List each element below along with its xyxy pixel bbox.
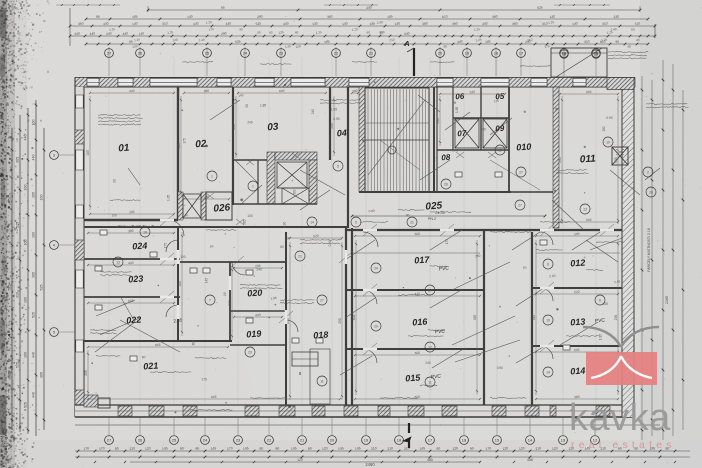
svg-text:365: 365 [481,127,487,131]
svg-text:18: 18 [143,230,147,234]
svg-text:24: 24 [374,266,378,270]
svg-text:440: 440 [255,313,261,318]
svg-text:295: 295 [574,232,580,237]
detail reference circles [113,137,656,387]
svg-text:014: 014 [570,365,586,376]
svg-text:610: 610 [442,14,448,19]
svg-text:140: 140 [342,21,348,26]
svg-text:024: 024 [132,240,148,251]
svg-text:04: 04 [336,128,347,139]
svg-text:380: 380 [203,89,209,94]
svg-text:90: 90 [245,104,249,108]
svg-text:95: 95 [96,15,100,19]
svg-text:170: 170 [99,446,105,451]
svg-text:27: 27 [320,298,324,302]
svg-text:160: 160 [24,185,28,191]
wall 023|022 [84,296,180,298]
svg-text:26: 26 [649,190,653,194]
room label 018 [313,329,329,340]
svg-text:310: 310 [162,21,168,26]
svg-text:real estates: real estates [571,439,676,451]
svg-text:14: 14 [528,438,533,443]
svg-text:2165: 2165 [665,296,669,304]
top grid bubbles [105,49,601,58]
top grid droppers [109,47,596,76]
svg-text:11: 11 [428,380,432,384]
svg-text:440: 440 [457,39,463,44]
watermark gray bird curves [583,327,659,347]
svg-text:295: 295 [330,123,334,129]
svg-text:100: 100 [602,126,606,132]
svg-text:5: 5 [355,220,357,224]
svg-text:175: 175 [544,44,550,49]
window flags [206,149,624,225]
room label 021 [143,360,159,371]
top-right corner pier [607,78,634,90]
svg-text:60: 60 [308,446,312,451]
svg-text:1.85: 1.85 [599,334,603,340]
svg-text:310: 310 [16,292,20,298]
svg-text:295: 295 [338,318,342,324]
svg-text:20: 20 [248,350,252,354]
svg-text:19: 19 [546,318,550,322]
svg-text:380: 380 [473,315,477,321]
wall 024|023 [84,258,180,260]
svg-text:13: 13 [583,207,587,211]
wall 020|019 [230,310,286,312]
svg-text:1: 1 [211,174,213,178]
room 01 bottom wall [84,219,178,221]
svg-text:140: 140 [572,21,578,26]
svg-text:24: 24 [203,438,208,443]
svg-text:175: 175 [201,377,207,381]
shaft X room03 b [282,188,309,204]
svg-text:210: 210 [387,446,393,451]
svg-text:19: 19 [465,51,470,56]
svg-text:90: 90 [470,446,474,451]
svg-text:21: 21 [300,438,305,443]
svg-text:525: 525 [16,362,20,368]
svg-text:27: 27 [518,203,522,207]
room label 013 [570,316,586,327]
svg-text:5: 5 [337,164,339,168]
terrace outline top right [551,48,607,77]
svg-text:22: 22 [267,438,272,443]
svg-text:0.90: 0.90 [606,116,612,120]
svg-text:120: 120 [552,446,558,451]
svg-text:295: 295 [228,300,232,306]
shaft X room 011 [612,147,628,165]
svg-text:20: 20 [330,438,335,443]
svg-text:240: 240 [256,267,262,271]
ink age spots [84,81,601,430]
svg-text:120: 120 [452,446,458,451]
svg-text:440: 440 [129,89,135,94]
svg-text:120: 120 [132,44,138,49]
svg-text:120: 120 [297,458,303,462]
room label 011 [579,153,596,165]
svg-text:170: 170 [227,446,233,451]
wall 018 left vertical [285,232,287,405]
svg-text:140: 140 [394,21,400,26]
svg-text:24: 24 [243,51,248,56]
svg-text:145: 145 [338,446,344,451]
svg-text:440: 440 [532,315,536,321]
svg-text:290: 290 [257,14,263,19]
wall 01|02 vertical [177,87,179,220]
svg-text:27: 27 [428,288,432,292]
room fixtures [95,172,570,404]
svg-text:310: 310 [602,21,608,26]
svg-text:175: 175 [182,138,186,144]
door opening breaks [160,220,614,349]
svg-text:PVC: PVC [594,317,605,324]
svg-text:605: 605 [128,299,134,304]
room label 08 [441,153,451,163]
svg-text:440: 440 [283,21,289,26]
svg-text:21: 21 [369,51,374,56]
svg-text:145: 145 [419,446,425,451]
svg-text:120: 120 [502,446,508,451]
svg-text:210: 210 [527,38,533,43]
room label 010 [516,141,532,152]
svg-text:240: 240 [482,21,488,26]
svg-text:20: 20 [438,51,443,56]
wall 018 right vertical [345,228,347,405]
svg-text:100: 100 [112,214,118,218]
svg-text:360: 360 [512,21,518,26]
svg-text:1: 1 [252,184,254,188]
svg-text:295: 295 [84,370,88,376]
svg-text:26: 26 [138,51,143,56]
svg-text:11: 11 [320,379,324,383]
svg-text:60: 60 [280,245,284,249]
interior dimension chains [84,89,619,400]
svg-text:17: 17 [428,438,433,443]
corridor 025 bottom wall [346,229,622,231]
outer wall right hatched [622,87,634,417]
bottom grid bubbles [105,417,600,444]
svg-text:160: 160 [24,240,28,246]
svg-text:026: 026 [213,202,231,214]
small rooms below 03 walls [233,160,317,204]
svg-text:1.85: 1.85 [260,104,266,108]
svg-text:380: 380 [128,229,134,234]
room label 022 [126,314,142,325]
svg-text:09: 09 [495,124,505,134]
svg-text:210: 210 [371,446,377,451]
svg-text:120: 120 [295,44,301,49]
svg-text:175: 175 [209,27,215,32]
svg-text:95: 95 [221,6,225,10]
svg-text:23: 23 [279,51,284,56]
svg-text:24.35: 24.35 [435,211,445,215]
svg-text:16: 16 [462,438,467,443]
svg-text:07: 07 [457,129,467,139]
svg-text:8: 8 [599,298,601,302]
svg-text:440: 440 [32,352,36,358]
svg-text:605: 605 [414,395,420,400]
svg-text:12: 12 [498,148,502,152]
svg-text:365: 365 [16,157,20,163]
svg-text:60: 60 [436,446,440,451]
svg-text:525: 525 [16,222,20,228]
svg-text:21: 21 [410,220,414,224]
svg-text:380: 380 [352,89,358,94]
svg-text:185: 185 [132,14,138,19]
svg-text:011: 011 [579,153,596,165]
svg-text:17: 17 [519,51,524,56]
room label 02 [195,139,207,151]
svg-text:240: 240 [613,14,619,19]
svg-text:100: 100 [180,255,186,259]
shaft X right [483,119,507,148]
svg-text:525: 525 [255,21,261,26]
leader lines rooms [95,140,622,362]
svg-text:605: 605 [279,89,285,94]
svg-text:170: 170 [485,446,491,451]
svg-text:175: 175 [493,99,499,104]
svg-text:140: 140 [549,14,555,19]
svg-text:60: 60 [259,446,263,451]
svg-text:380: 380 [177,143,181,149]
svg-text:010: 010 [516,141,532,152]
svg-text:06: 06 [455,92,465,102]
wall 012|013 [532,287,622,289]
svg-text:0.90: 0.90 [497,366,503,370]
svg-text:13: 13 [116,260,120,264]
svg-text:145: 145 [204,278,208,284]
room label 04 [336,128,347,139]
svg-text:210: 210 [535,446,541,451]
svg-text:03: 03 [267,122,279,134]
svg-text:440: 440 [436,118,440,124]
svg-text:610: 610 [74,31,80,36]
wall 020 block left [229,262,231,341]
room label 05 [495,92,505,102]
svg-text:365: 365 [32,272,36,278]
svg-text:440: 440 [404,31,410,36]
room label 01 [118,143,130,155]
svg-text:02: 02 [195,139,207,151]
svg-text:0.90: 0.90 [333,117,339,121]
svg-text:200: 200 [285,236,291,240]
svg-text:7: 7 [209,298,211,302]
svg-text:605: 605 [352,315,356,321]
wall 017 block right vertical [483,230,485,405]
svg-text:290: 290 [221,31,227,36]
svg-text:295: 295 [129,210,135,215]
svg-text:525: 525 [8,285,12,291]
svg-text:525: 525 [8,195,12,201]
elevator shaft 026 [178,192,232,220]
very top tick marks [56,4,610,6]
svg-text:2.40: 2.40 [452,149,458,153]
wall left corridor vertical [177,227,179,341]
svg-text:295: 295 [203,195,209,200]
section mark A top [403,41,414,76]
svg-text:440: 440 [128,261,134,266]
svg-text:100: 100 [292,189,296,195]
svg-text:08: 08 [441,153,451,163]
svg-text:295: 295 [558,157,562,163]
room label 019 [246,328,262,339]
corridor dimension line [351,211,620,253]
svg-text:295: 295 [614,315,618,321]
svg-text:120: 120 [278,30,284,35]
svg-text:0.90: 0.90 [328,240,332,246]
handwritten notes [90,51,689,410]
svg-text:26: 26 [138,438,143,443]
svg-text:160: 160 [24,297,28,303]
svg-text:20: 20 [374,324,378,328]
svg-text:145: 145 [602,302,608,306]
wall tiny numbers [112,93,621,381]
paper shading patches [0,0,440,270]
svg-text:360: 360 [422,21,428,26]
wall 017|016 [346,289,484,291]
svg-text:PVC: PVC [438,265,449,272]
svg-text:485: 485 [427,458,433,462]
svg-text:210: 210 [389,38,395,43]
svg-text:240: 240 [247,120,253,124]
svg-text:605: 605 [586,90,592,95]
svg-text:605: 605 [574,348,580,353]
room 021 top opening lines [84,340,232,342]
svg-text:440: 440 [32,392,36,398]
room label 017 [414,254,431,265]
svg-text:520: 520 [469,90,475,95]
svg-text:605: 605 [211,395,217,400]
svg-text:365: 365 [242,219,246,225]
svg-text:021: 021 [143,360,159,371]
svg-text:525: 525 [40,285,44,291]
svg-text:605: 605 [614,157,618,163]
outer wall top [75,78,635,88]
svg-text:240: 240 [311,109,315,115]
svg-text:90: 90 [180,446,184,451]
wall 03|04 vertical [329,87,331,160]
svg-text:360: 360 [78,21,84,26]
svg-text:145: 145 [162,446,168,451]
svg-text:310: 310 [584,39,590,44]
wall 02|03 vertical [232,87,234,205]
svg-text:525: 525 [24,402,28,408]
svg-text:1.85: 1.85 [167,195,171,201]
svg-text:185: 185 [387,14,393,19]
wall 010|011 vertical [553,87,559,228]
room label 025 [425,200,443,212]
svg-text:15: 15 [495,438,500,443]
svg-text:145: 145 [355,446,361,451]
corridor 025 top edge at 010 [511,191,553,193]
svg-text:240: 240 [475,254,481,259]
svg-text:525: 525 [537,5,543,10]
watermark white bird curves [591,356,652,378]
small rooms block 05 06 07 08 09 [359,87,511,192]
svg-text:90: 90 [223,292,227,296]
outer wall left [75,78,84,418]
shaft X room03 a [277,162,307,188]
wall 04|staircase vertical [347,87,349,228]
svg-text:90: 90 [275,446,279,451]
wall 017 block left vertical [351,228,353,405]
svg-text:520: 520 [313,234,319,239]
svg-text:175: 175 [445,239,449,245]
svg-text:520: 520 [574,290,580,295]
svg-text:01: 01 [118,143,130,155]
svg-text:240: 240 [366,5,372,10]
room label 026 [213,202,231,214]
svg-text:PVC: PVC [434,328,445,335]
wall 012 block left vertical [531,232,533,405]
section mark A bottom [403,423,411,448]
svg-text:90: 90 [195,446,199,451]
room label 03 [267,122,279,134]
svg-text:19: 19 [606,140,610,144]
svg-text:185: 185 [485,39,491,44]
svg-text:605: 605 [586,218,592,223]
svg-text:120: 120 [145,446,151,451]
svg-text:120: 120 [322,446,328,451]
svg-text:525: 525 [32,312,36,318]
svg-text:15: 15 [594,52,599,57]
wall 013|014 [532,345,622,347]
svg-text:240: 240 [425,361,431,365]
door swing diagonals [96,95,660,375]
room label 016 [412,316,429,327]
room label 014 [570,365,586,376]
svg-text:016: 016 [412,316,429,327]
svg-text:310: 310 [634,21,640,26]
svg-text:21: 21 [298,254,302,258]
svg-text:PN.2: PN.2 [428,217,436,221]
svg-text:90: 90 [113,179,117,183]
svg-text:180: 180 [86,150,90,156]
svg-text:360: 360 [452,21,458,26]
svg-text:360: 360 [327,14,333,19]
svg-text:458: 458 [527,458,533,462]
left scanner edge band [0,0,7,468]
svg-text:160: 160 [24,352,28,358]
svg-text:0.90: 0.90 [283,222,287,228]
svg-text:145: 145 [243,446,249,451]
svg-text:6: 6 [547,262,549,266]
svg-text:160: 160 [40,195,44,201]
svg-text:015: 015 [405,372,422,383]
svg-text:27: 27 [107,438,112,443]
svg-text:2460: 2460 [365,462,375,467]
svg-text:023: 023 [128,273,144,284]
svg-text:160: 160 [32,120,36,126]
svg-text:25: 25 [205,51,210,56]
svg-text:365: 365 [40,372,44,378]
svg-text:140: 140 [312,21,318,26]
svg-text:017: 017 [414,254,431,265]
left dimension lines [8,100,46,436]
room label 09 [495,124,505,134]
svg-text:175: 175 [164,243,168,249]
svg-text:440: 440 [232,124,236,130]
svg-text:170: 170 [83,446,89,451]
shaft walls below room 03 [267,152,317,204]
watermark red box [586,352,657,385]
svg-text:A: A [403,41,409,48]
door crossing diagonals [160,214,614,355]
staircase [359,87,429,192]
left grid bubbles [50,151,74,337]
wall 022|021 [84,340,232,342]
